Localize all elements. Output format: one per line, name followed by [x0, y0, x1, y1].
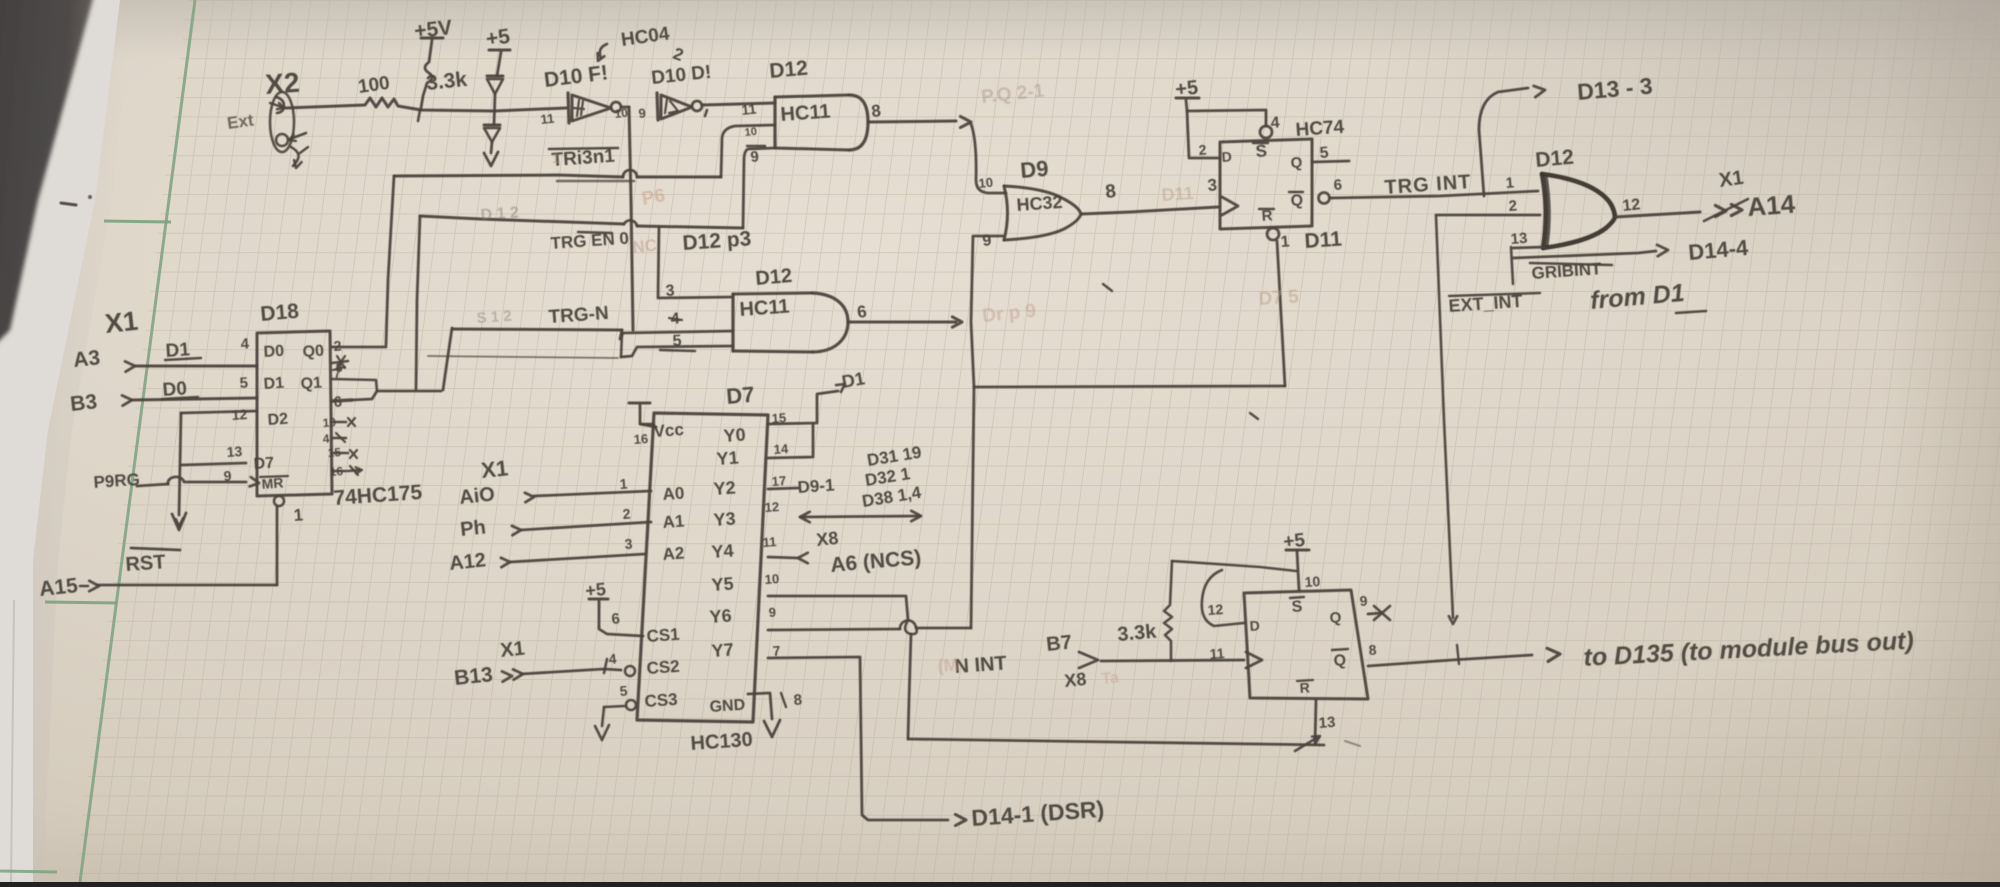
svg-text:A3: A3 [72, 346, 101, 372]
svg-text:10: 10 [744, 126, 757, 139]
svg-text:12: 12 [764, 499, 779, 515]
svg-text:Ext: Ext [226, 110, 255, 133]
svg-text:D7 5: D7 5 [1258, 286, 1300, 310]
svg-text:9: 9 [223, 467, 232, 484]
svg-text:6: 6 [611, 610, 621, 628]
svg-text:D0: D0 [263, 343, 285, 361]
svg-text:X8: X8 [815, 528, 839, 550]
svg-text:1: 1 [619, 475, 628, 492]
svg-text:D: D [1249, 617, 1260, 634]
svg-text:X2: X2 [264, 67, 300, 100]
svg-text:2: 2 [333, 337, 342, 354]
svg-text:RST: RST [125, 551, 166, 576]
svg-text:S 1 2: S 1 2 [476, 308, 512, 327]
svg-text:X1: X1 [480, 455, 509, 483]
svg-text:10: 10 [764, 571, 779, 587]
svg-text:B3: B3 [69, 390, 98, 416]
svg-text:4: 4 [1270, 114, 1280, 132]
svg-text:10: 10 [322, 415, 337, 430]
svg-text:Q0: Q0 [302, 343, 325, 361]
svg-text:CS1: CS1 [646, 625, 680, 646]
svg-text:A12: A12 [448, 549, 487, 575]
svg-text:D12: D12 [768, 57, 808, 83]
svg-text:5: 5 [1319, 144, 1329, 162]
svg-text:10: 10 [614, 106, 629, 121]
svg-text:+5: +5 [584, 579, 607, 601]
svg-text:S: S [1255, 141, 1268, 161]
svg-text:P6: P6 [640, 185, 667, 210]
svg-text:Y3: Y3 [713, 509, 736, 530]
svg-text:D18: D18 [259, 300, 300, 326]
svg-text:Q: Q [1329, 609, 1342, 627]
svg-text:Q1: Q1 [300, 375, 323, 393]
svg-text:Vcc: Vcc [653, 420, 685, 441]
svg-text:10: 10 [978, 175, 994, 191]
svg-text:13: 13 [1318, 714, 1336, 732]
svg-text:7: 7 [772, 642, 781, 659]
svg-text:4: 4 [608, 650, 617, 667]
svg-text:+5V: +5V [413, 16, 453, 43]
svg-text:8: 8 [1368, 641, 1377, 658]
svg-text:D1: D1 [840, 368, 866, 392]
svg-text:(M: (M [937, 655, 959, 676]
svg-text:D11: D11 [1161, 183, 1194, 205]
svg-text:1: 1 [552, 150, 560, 166]
svg-text:2: 2 [1198, 141, 1207, 158]
svg-text:13: 13 [226, 443, 243, 460]
svg-text:9: 9 [750, 148, 760, 166]
svg-text:10: 10 [1304, 573, 1321, 590]
svg-text:11: 11 [540, 111, 555, 127]
svg-text:8: 8 [793, 691, 803, 709]
svg-text:HC32: HC32 [1016, 192, 1063, 215]
svg-text:A0: A0 [662, 484, 685, 504]
svg-text:X1: X1 [499, 638, 526, 662]
svg-text:Y4: Y4 [711, 541, 734, 562]
svg-text:16: 16 [633, 431, 648, 447]
svg-text:6: 6 [333, 393, 343, 411]
svg-text:P9RG: P9RG [93, 470, 141, 492]
svg-text:15: 15 [771, 410, 786, 426]
svg-text:2: 2 [622, 505, 631, 522]
svg-text:5: 5 [619, 682, 628, 699]
svg-text:HC130: HC130 [690, 729, 754, 755]
svg-text:11: 11 [741, 101, 758, 118]
svg-text:D1: D1 [263, 375, 285, 393]
svg-text:D9: D9 [1019, 156, 1049, 183]
svg-text:3: 3 [624, 535, 633, 552]
svg-text:3.3k: 3.3k [1117, 621, 1159, 646]
svg-text:12: 12 [231, 406, 248, 423]
svg-text:9: 9 [768, 605, 776, 620]
svg-text:12: 12 [1622, 196, 1642, 215]
svg-text:D7: D7 [725, 382, 755, 409]
svg-text:15: 15 [327, 445, 342, 460]
svg-text:HC74: HC74 [1295, 117, 1345, 141]
svg-text:3: 3 [665, 282, 675, 300]
svg-text:A14: A14 [1746, 189, 1796, 222]
svg-text:D11: D11 [1304, 227, 1343, 253]
svg-text:GND: GND [709, 697, 746, 716]
svg-text:Y0: Y0 [723, 425, 746, 446]
svg-text:9: 9 [982, 232, 993, 250]
svg-text:+5: +5 [484, 25, 511, 51]
svg-text:Y6: Y6 [709, 606, 732, 627]
svg-text:1: 1 [293, 505, 304, 525]
svg-text:NC: NC [631, 236, 657, 257]
svg-text:6: 6 [1333, 176, 1343, 194]
svg-text:N INT: N INT [954, 652, 1008, 678]
svg-text:D12 p3: D12 p3 [682, 227, 752, 255]
svg-text:3.3k: 3.3k [425, 68, 468, 95]
svg-text:16: 16 [329, 464, 344, 479]
svg-text:CS2: CS2 [646, 657, 680, 678]
svg-text:D14-4: D14-4 [1687, 235, 1750, 265]
svg-text:CS3: CS3 [644, 690, 678, 711]
svg-text:17: 17 [771, 473, 786, 489]
svg-text:Y1: Y1 [716, 448, 739, 469]
svg-text:HC11: HC11 [739, 296, 790, 321]
svg-text:Q: Q [1333, 652, 1347, 670]
svg-text:4: 4 [322, 432, 330, 446]
svg-text:D12: D12 [1534, 146, 1574, 172]
svg-text:D2: D2 [267, 411, 289, 429]
svg-text:13: 13 [1510, 230, 1528, 248]
svg-text:D: D [1221, 148, 1232, 165]
svg-text:B7: B7 [1045, 631, 1073, 656]
svg-text:D12: D12 [755, 265, 793, 290]
svg-text:X1: X1 [103, 306, 139, 339]
svg-text:D 1 2: D 1 2 [480, 204, 519, 224]
svg-text:3: 3 [1207, 175, 1218, 195]
svg-text:1: 1 [1505, 174, 1515, 192]
svg-text:A1: A1 [662, 512, 685, 532]
svg-text:12: 12 [1207, 601, 1224, 618]
svg-text:X1: X1 [1718, 167, 1745, 192]
svg-text:5: 5 [672, 332, 682, 350]
svg-text:TRG-N: TRG-N [548, 303, 609, 328]
svg-text:A15: A15 [38, 574, 79, 601]
svg-text:2: 2 [1508, 197, 1518, 215]
svg-text:Q: Q [1290, 192, 1304, 210]
svg-text:14: 14 [773, 441, 789, 457]
svg-text:Ph: Ph [459, 516, 487, 541]
svg-text:8: 8 [870, 101, 881, 121]
svg-text:S: S [1291, 598, 1303, 616]
svg-text:HC11: HC11 [780, 101, 831, 126]
svg-text:Y5: Y5 [711, 574, 734, 595]
svg-text:D7: D7 [253, 455, 275, 473]
svg-text:8: 8 [1104, 181, 1117, 203]
svg-text:5: 5 [239, 374, 249, 392]
svg-text:D9-1: D9-1 [797, 475, 835, 497]
svg-text:+5: +5 [1174, 77, 1199, 101]
svg-text:1: 1 [1280, 233, 1290, 251]
svg-text:Y2: Y2 [713, 478, 736, 499]
svg-text:AiO: AiO [458, 483, 496, 509]
svg-text:100: 100 [357, 73, 391, 98]
svg-text:9: 9 [1359, 592, 1368, 609]
svg-text:11: 11 [1209, 645, 1225, 662]
svg-text:+5: +5 [1282, 530, 1306, 553]
svg-text:X8: X8 [1063, 669, 1087, 691]
svg-text:A2: A2 [662, 544, 685, 564]
svg-text:Q: Q [1290, 154, 1303, 172]
svg-text:Ta: Ta [1101, 669, 1120, 688]
svg-text:B13: B13 [453, 663, 494, 690]
svg-text:11: 11 [762, 534, 777, 550]
svg-text:Y7: Y7 [711, 640, 734, 661]
svg-text:7: 7 [333, 366, 341, 381]
